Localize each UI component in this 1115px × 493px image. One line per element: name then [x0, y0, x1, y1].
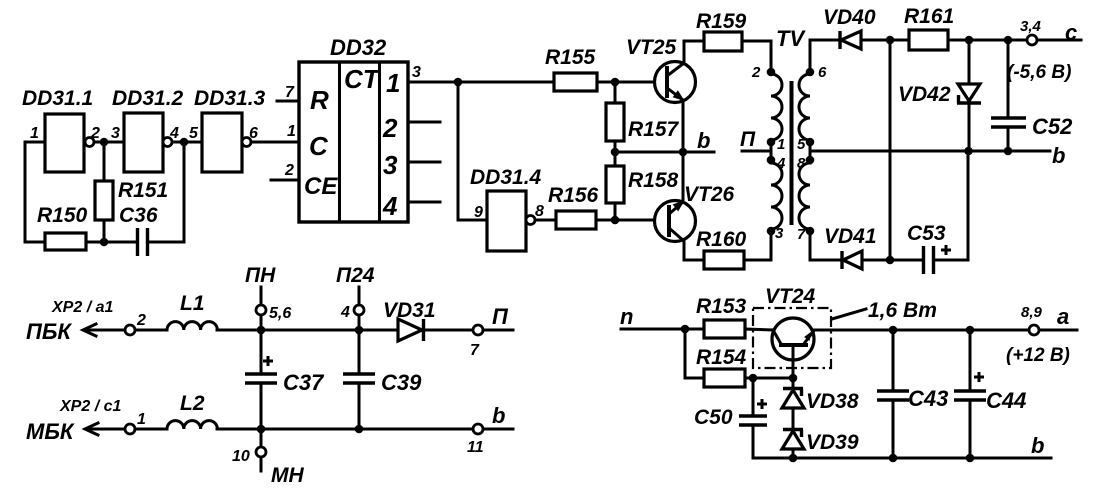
node junction C43 top	[889, 326, 898, 335]
arrow PBK	[84, 329, 125, 332]
svg-text:VT26: VT26	[684, 183, 735, 206]
svg-text:R: R	[310, 85, 329, 115]
wire DD31.3 out to DD32 pin1	[251, 141, 299, 144]
resistor R157	[614, 82, 617, 103]
svg-text:VT24: VT24	[765, 285, 816, 308]
svg-text:c: c	[1065, 20, 1077, 45]
svg-text:C: C	[309, 131, 329, 161]
svg-text:R161: R161	[904, 5, 954, 28]
terminal 4 P24	[358, 287, 361, 305]
svg-text:3: 3	[775, 225, 784, 242]
resistor R156	[535, 219, 556, 222]
svg-text:C53: C53	[907, 222, 946, 245]
winding primary upper 2-1	[771, 74, 782, 140]
svg-text:R158: R158	[628, 169, 679, 192]
svg-text:n: n	[620, 304, 633, 329]
node junction VD41/C53	[886, 256, 895, 265]
transistor VT26	[655, 201, 696, 242]
node b junction	[611, 148, 620, 157]
node junction R156/R158	[611, 216, 620, 225]
svg-text:3: 3	[383, 150, 398, 180]
node junction C52-b	[1004, 147, 1013, 156]
svg-text:4: 4	[776, 155, 786, 172]
svg-text:XP2 / a1: XP2 / a1	[51, 299, 113, 316]
core	[790, 81, 794, 225]
terminal 10 MN	[260, 429, 263, 447]
svg-text:DD32: DD32	[330, 35, 387, 60]
node junction VD39 bottom	[789, 454, 798, 463]
wire VD40 junction down	[889, 40, 892, 260]
capacitor C37	[260, 330, 263, 373]
capacitor C44	[969, 330, 972, 390]
svg-text:2: 2	[90, 125, 100, 142]
svg-text:b: b	[1052, 143, 1065, 168]
svg-text:1: 1	[30, 125, 39, 142]
svg-text:XP2 / c1: XP2 / c1	[59, 398, 121, 415]
capacitor C43	[892, 330, 895, 390]
wire pins 1-4	[770, 142, 773, 160]
svg-text:4: 4	[340, 304, 350, 321]
winding secondary lower 8-7	[799, 163, 810, 229]
output stub 4	[408, 201, 440, 204]
wire pin7 down	[810, 231, 842, 260]
terminal 11 b	[473, 424, 483, 434]
node junction C37 bottom	[257, 425, 266, 434]
transistor VT25	[655, 62, 696, 103]
svg-text:1: 1	[137, 411, 146, 428]
svg-text:1: 1	[287, 123, 296, 140]
output stub 2	[408, 121, 440, 124]
svg-text:6: 6	[249, 125, 258, 142]
svg-text:a: a	[1057, 304, 1069, 329]
node junction PN	[257, 326, 266, 335]
node P stub	[742, 150, 771, 153]
inverter DD31.1	[45, 114, 84, 172]
svg-text:DD31.2: DD31.2	[112, 87, 184, 110]
svg-text:5,6: 5,6	[269, 305, 291, 322]
svg-text:b: b	[1031, 433, 1044, 458]
svg-text:b: b	[492, 403, 505, 428]
node junction R161/VD42	[965, 36, 974, 45]
transistor VT24	[753, 308, 831, 368]
svg-text:R156: R156	[548, 184, 599, 207]
svg-text:C37: C37	[283, 370, 325, 395]
svg-text:3: 3	[111, 125, 120, 142]
svg-text:R160: R160	[696, 228, 747, 251]
svg-text:8: 8	[797, 155, 806, 172]
svg-text:6: 6	[818, 64, 827, 81]
svg-text:2: 2	[136, 312, 146, 329]
arrow MBK	[86, 428, 125, 431]
svg-text:DD31.3: DD31.3	[194, 87, 266, 110]
node junction C43 bottom	[889, 454, 898, 463]
node pin1	[767, 138, 776, 147]
wire VT24 emitter to a	[814, 329, 1027, 332]
svg-text:R150: R150	[37, 204, 88, 227]
node junction C44 top	[966, 326, 975, 335]
diode VD31	[398, 319, 422, 341]
pin 2 stub	[271, 179, 299, 182]
inverter DD31.2	[124, 113, 163, 172]
zener VD42	[968, 40, 971, 84]
node pin8	[806, 156, 815, 165]
node junction VD42-b	[964, 147, 973, 156]
node pin3	[767, 227, 776, 236]
svg-text:b: b	[697, 128, 710, 153]
svg-text:C50: C50	[694, 406, 733, 429]
resistor R160	[704, 251, 744, 269]
capacitor C50	[752, 378, 755, 415]
svg-text:R153: R153	[696, 295, 747, 318]
svg-text:5: 5	[189, 125, 199, 142]
resistor R159	[684, 40, 704, 43]
svg-text:C52: C52	[1032, 114, 1073, 139]
terminal 8,9	[1029, 325, 1039, 335]
svg-text:CE: CE	[304, 173, 338, 200]
wire b right	[810, 150, 1050, 153]
svg-text:3,4: 3,4	[1020, 18, 1042, 35]
wire pin6 up	[810, 40, 840, 72]
svg-text:VD38: VD38	[806, 390, 859, 413]
output stub 3	[408, 161, 440, 164]
counter DD32	[299, 62, 408, 222]
capacitor C39	[358, 330, 361, 373]
diode VD41	[840, 251, 843, 269]
resistor R155	[554, 73, 597, 91]
svg-text:R159: R159	[696, 10, 747, 33]
svg-text:4: 4	[169, 125, 179, 142]
svg-text:ПБК: ПБК	[26, 319, 72, 344]
svg-text:8,9: 8,9	[1021, 304, 1043, 321]
svg-text:1: 1	[777, 136, 785, 153]
wire DD31.1 out to DD31.2	[94, 141, 124, 144]
svg-text:7: 7	[470, 342, 480, 359]
wire DD31.2 out to DD31.3	[172, 141, 202, 144]
resistor R151	[103, 142, 106, 181]
svg-text:R155: R155	[545, 46, 596, 69]
node pin2	[767, 68, 776, 77]
terminal 7 P	[473, 325, 483, 335]
svg-text:DD31.1: DD31.1	[22, 87, 93, 110]
svg-text:1: 1	[386, 68, 400, 98]
svg-text:VD39: VD39	[806, 431, 859, 454]
resistor R158	[614, 152, 617, 166]
wire node b	[615, 151, 714, 154]
svg-text:C43: C43	[908, 386, 948, 411]
svg-text:2: 2	[382, 113, 398, 143]
resistor R154	[685, 329, 704, 378]
node junction out1	[454, 78, 463, 87]
node junction R155/R157	[611, 78, 620, 87]
node pin4	[767, 156, 776, 165]
svg-text:П: П	[492, 304, 509, 329]
svg-text:П: П	[740, 128, 756, 151]
zener VD38	[792, 378, 795, 389]
svg-text:1,6 Вт: 1,6 Вт	[868, 299, 937, 322]
svg-text:C39: C39	[381, 370, 422, 395]
svg-text:C44: C44	[986, 388, 1026, 413]
svg-text:4: 4	[382, 191, 398, 221]
svg-text:L1: L1	[180, 292, 205, 315]
pin 7 stub	[277, 100, 299, 103]
wire bottom b	[753, 457, 1051, 460]
resistor R153	[704, 320, 745, 338]
wire to c	[1037, 39, 1081, 42]
svg-text:2: 2	[751, 64, 761, 81]
svg-text:5: 5	[797, 136, 806, 153]
svg-text:TV: TV	[776, 26, 806, 51]
svg-text:3: 3	[412, 64, 421, 81]
node junction C44 bottom	[966, 454, 975, 463]
svg-text:7: 7	[285, 84, 295, 101]
wire feedback left loop	[25, 142, 45, 242]
node junction C50	[749, 374, 758, 383]
svg-text:L2: L2	[180, 392, 205, 415]
svg-text:R151: R151	[118, 179, 168, 202]
node junction R153/R154	[681, 325, 690, 334]
svg-text:VT25: VT25	[626, 36, 677, 59]
svg-text:8: 8	[535, 203, 544, 220]
svg-text:C36: C36	[119, 204, 158, 227]
svg-text:VD31: VD31	[383, 299, 436, 322]
svg-text:(-5,6 В): (-5,6 В)	[1007, 62, 1071, 83]
svg-text:R154: R154	[696, 346, 747, 369]
resistor R150	[45, 233, 86, 250]
wire L1 to P	[217, 329, 398, 332]
inductor L2	[135, 428, 167, 431]
capacitor C36	[104, 241, 137, 244]
node junction C52	[1004, 36, 1013, 45]
terminal 5,6 PN	[260, 287, 263, 305]
node junction P24	[355, 326, 364, 335]
inductor L1	[135, 329, 167, 332]
svg-text:7: 7	[797, 226, 806, 243]
wire pins 5-8	[809, 142, 812, 160]
node pin7	[806, 227, 815, 236]
resistor R161	[909, 30, 948, 50]
node junction 4-5	[180, 138, 189, 147]
terminal 3,4	[1027, 35, 1037, 45]
svg-text:10: 10	[232, 448, 250, 465]
inverter DD31.4	[487, 191, 526, 251]
node pin6	[806, 68, 815, 77]
svg-text:CT: CT	[344, 64, 381, 94]
winding secondary upper 6-5	[799, 74, 810, 140]
node junction C39 bottom	[355, 425, 364, 434]
svg-text:МН: МН	[271, 464, 304, 487]
svg-text:2: 2	[284, 162, 294, 179]
svg-text:МБК: МБК	[26, 419, 75, 444]
wire n	[621, 328, 704, 331]
svg-text:(+12 В): (+12 В)	[1006, 345, 1070, 366]
node junction R150/R151/C36	[100, 238, 109, 247]
zener VD39	[783, 428, 803, 431]
node junction 2-3	[100, 138, 109, 147]
node junction emitters b	[679, 148, 688, 157]
capacitor C53	[890, 259, 923, 262]
label 1,6 Vt leader	[832, 309, 866, 319]
svg-text:VD41: VD41	[824, 225, 877, 248]
wire to DD31.4	[458, 82, 487, 220]
node pin5	[806, 138, 815, 147]
svg-text:DD31.4: DD31.4	[470, 166, 542, 189]
node junction VD40/R161	[886, 36, 895, 45]
winding primary lower 4-3	[771, 163, 782, 229]
capacitor C52	[1007, 40, 1010, 117]
svg-text:9: 9	[474, 204, 483, 221]
wire L2 to b	[217, 428, 473, 431]
terminal 1	[125, 424, 135, 434]
terminal 2	[125, 325, 135, 335]
svg-text:П24: П24	[336, 264, 375, 287]
svg-text:VD40: VD40	[823, 6, 876, 29]
svg-text:ПН: ПН	[245, 264, 276, 287]
svg-text:VD42: VD42	[898, 83, 951, 106]
inverter DD31.3	[202, 113, 242, 172]
output 1 wire pin 3	[408, 81, 554, 84]
svg-text:R157: R157	[628, 118, 680, 141]
svg-text:11: 11	[467, 439, 484, 456]
node junction VT24 base	[789, 374, 798, 383]
diode VD40	[838, 31, 841, 49]
